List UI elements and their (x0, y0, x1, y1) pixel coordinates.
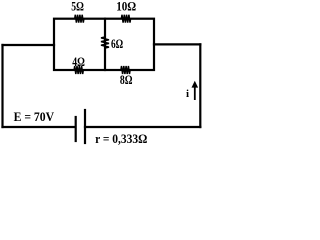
svg-text:4Ω: 4Ω (72, 54, 85, 69)
svg-text:10Ω: 10Ω (116, 0, 136, 13)
svg-text:E = 70V: E = 70V (14, 109, 55, 124)
svg-text:6Ω: 6Ω (111, 36, 123, 51)
svg-text:5Ω: 5Ω (71, 0, 84, 13)
svg-text:i: i (186, 88, 189, 100)
svg-text:r = 0,333Ω: r = 0,333Ω (95, 131, 147, 146)
svg-text:8Ω: 8Ω (120, 72, 133, 87)
